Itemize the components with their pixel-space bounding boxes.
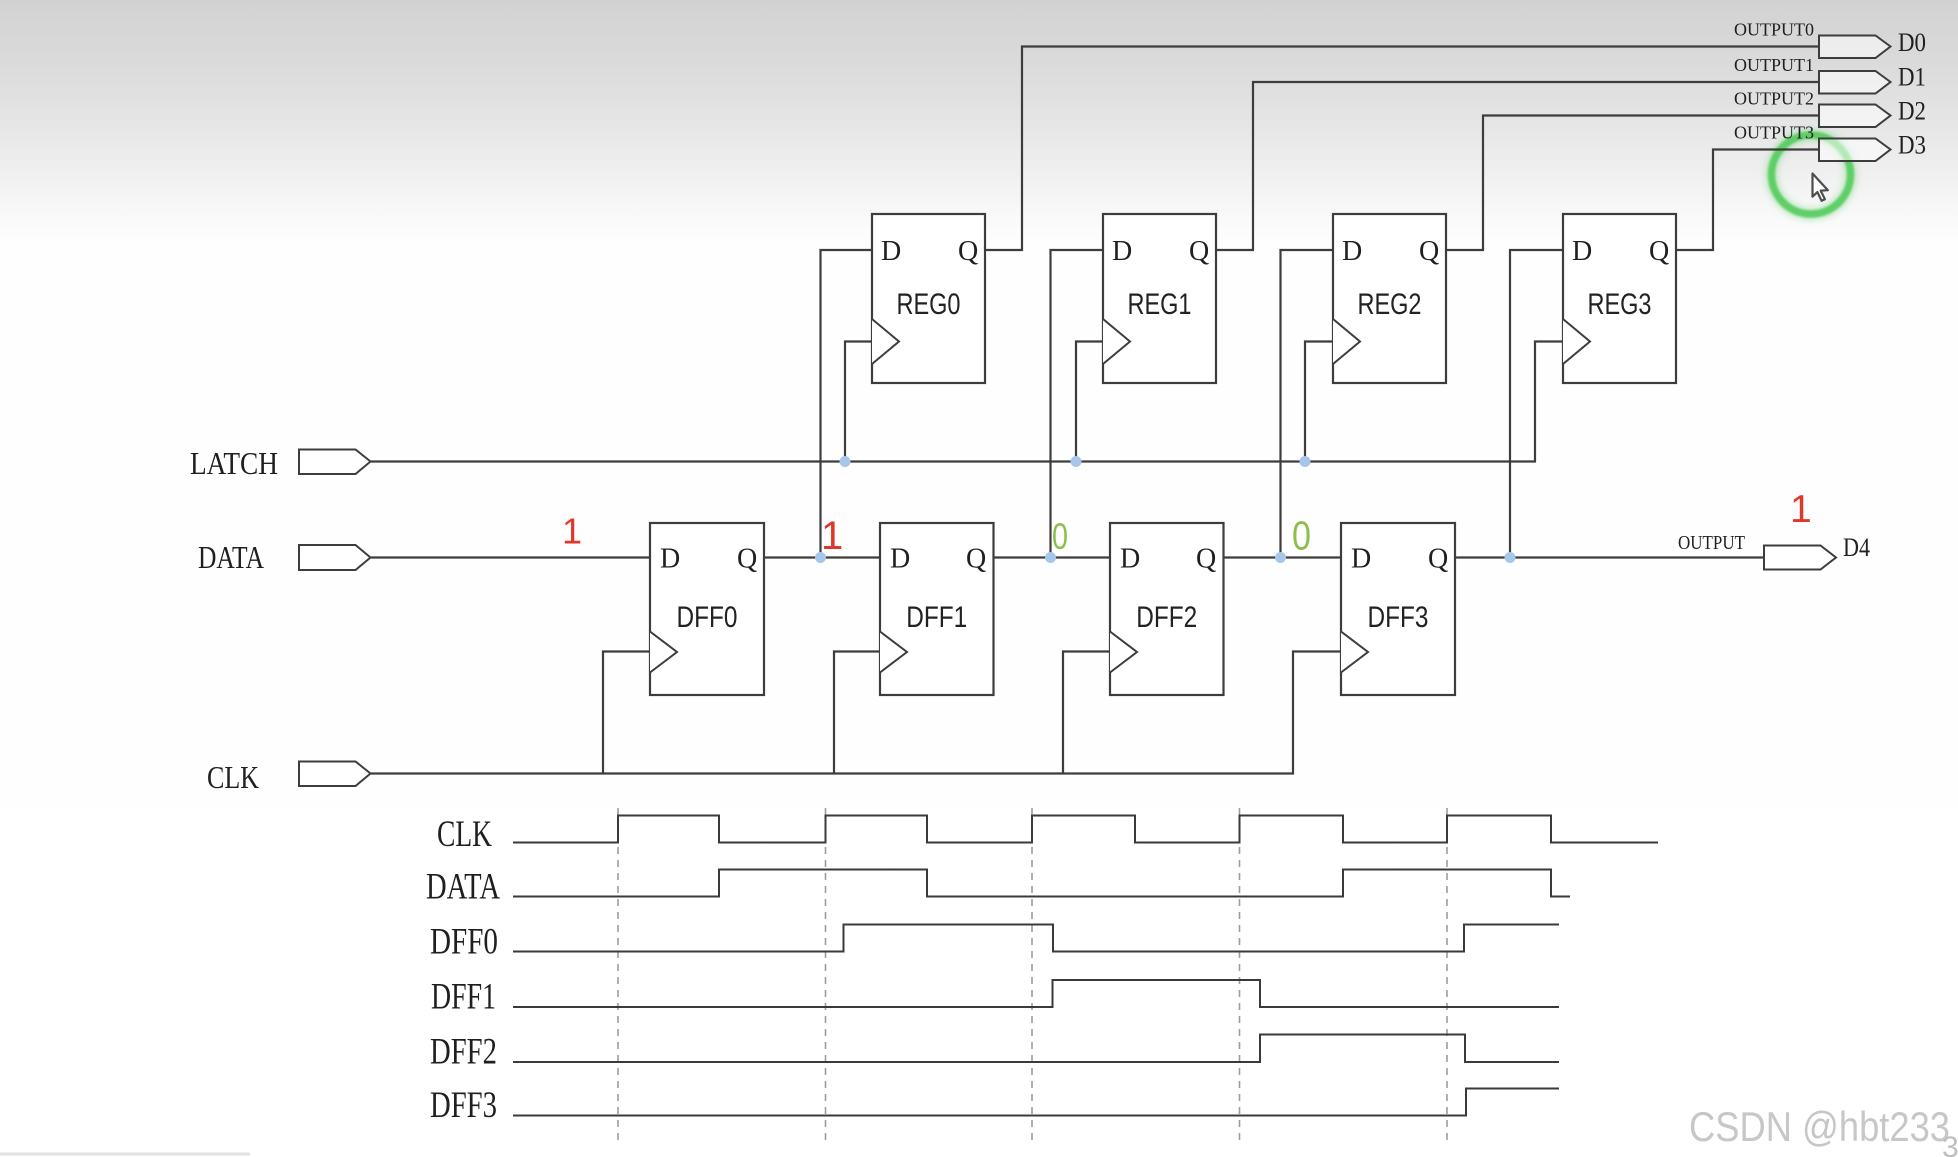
svg-text:REG1: REG1 [1128,288,1192,321]
svg-text:D3: D3 [1898,131,1926,160]
svg-text:DATA: DATA [426,867,500,908]
svg-text:D4: D4 [1843,533,1870,562]
svg-text:REG0: REG0 [897,288,961,321]
svg-text:Q: Q [966,544,986,575]
svg-text:0: 0 [1292,513,1311,559]
svg-text:D: D [1572,236,1592,267]
svg-text:Q: Q [1428,544,1448,575]
svg-text:1: 1 [1790,488,1812,531]
svg-text:DFF0: DFF0 [430,922,498,963]
svg-text:DFF2: DFF2 [1136,601,1197,634]
svg-text:DFF2: DFF2 [430,1032,497,1073]
svg-text:OUTPUT: OUTPUT [1678,532,1745,554]
svg-text:D: D [660,544,680,575]
svg-text:REG2: REG2 [1358,288,1422,321]
svg-text:D: D [1112,236,1132,267]
svg-text:DATA: DATA [198,539,264,575]
svg-text:Q: Q [1649,236,1669,267]
svg-text:OUTPUT1: OUTPUT1 [1734,55,1814,75]
svg-text:D2: D2 [1898,97,1926,126]
svg-text:0: 0 [1052,516,1068,557]
svg-text:1: 1 [821,514,843,558]
svg-text:DFF3: DFF3 [430,1085,497,1126]
svg-text:DFF1: DFF1 [906,601,967,634]
svg-text:Q: Q [737,544,757,575]
svg-text:D: D [1120,544,1140,575]
svg-text:OUTPUT3: OUTPUT3 [1734,123,1814,143]
svg-text:D1: D1 [1898,63,1926,92]
svg-text:DFF1: DFF1 [431,977,496,1018]
svg-text:D0: D0 [1898,28,1926,57]
svg-text:DFF3: DFF3 [1368,601,1429,634]
svg-text:Q: Q [1196,544,1216,575]
svg-text:OUTPUT2: OUTPUT2 [1734,89,1814,109]
svg-text:Q: Q [1189,236,1209,267]
svg-text:Q: Q [958,236,978,267]
svg-text:OUTPUT0: OUTPUT0 [1734,20,1814,40]
svg-text:CSDN @hbt233: CSDN @hbt233 [1689,1103,1950,1150]
svg-text:D: D [890,544,910,575]
svg-text:D: D [881,236,901,267]
svg-text:DFF0: DFF0 [677,601,738,634]
svg-text:3: 3 [1942,1131,1958,1157]
svg-text:1: 1 [562,511,582,552]
svg-text:D: D [1342,236,1362,267]
svg-text:CLK: CLK [207,759,259,795]
svg-text:Q: Q [1419,236,1439,267]
svg-text:CLK: CLK [437,814,492,855]
svg-text:REG3: REG3 [1588,288,1652,321]
svg-text:LATCH: LATCH [190,445,278,481]
svg-text:D: D [1351,544,1371,575]
